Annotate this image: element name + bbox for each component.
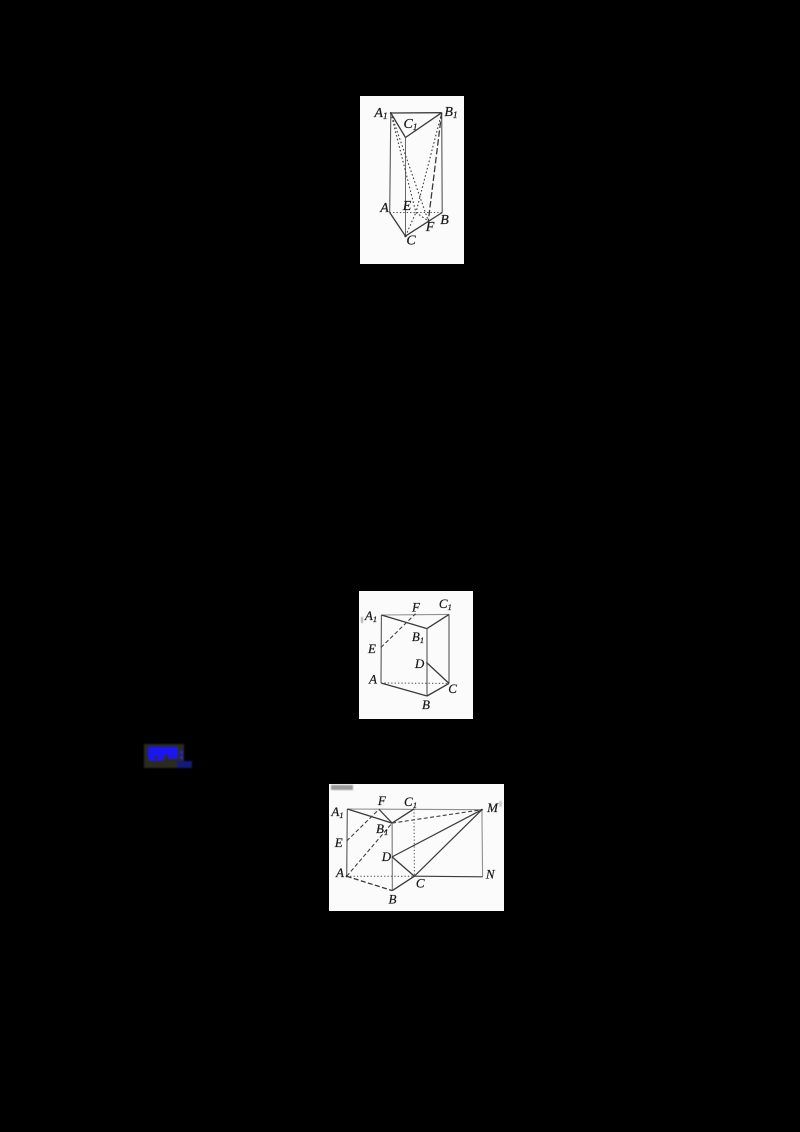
answer badge blue glyphs bbox=[148, 747, 178, 759]
segment E-F bbox=[347, 809, 379, 841]
svg-text:B1: B1 bbox=[376, 821, 388, 837]
edge A-C hidden bbox=[381, 682, 449, 684]
svg-text:C: C bbox=[406, 234, 416, 249]
svg-text:C: C bbox=[448, 681, 457, 696]
svg-text:E: E bbox=[367, 641, 376, 656]
edge C-N bbox=[414, 875, 482, 878]
svg-text:B1: B1 bbox=[444, 105, 457, 121]
answer badge background bbox=[144, 744, 184, 768]
segment B1-F bbox=[379, 809, 392, 823]
svg-text:A: A bbox=[368, 671, 377, 686]
answer badge colon dot top bbox=[180, 751, 183, 754]
svg-text:A1: A1 bbox=[364, 608, 377, 624]
answer badge navy block bbox=[177, 761, 192, 768]
edge B1-B bbox=[391, 823, 393, 891]
edge A1-B1 bbox=[381, 615, 427, 629]
edge A1-A bbox=[380, 615, 382, 683]
segment A-B1 bbox=[347, 823, 392, 876]
segment E-F bbox=[381, 614, 416, 648]
svg-text:M: M bbox=[486, 800, 499, 815]
vertex dot A bbox=[346, 875, 348, 877]
svg-text:A1: A1 bbox=[330, 804, 343, 820]
svg-text:B: B bbox=[440, 213, 449, 228]
svg-text:A: A bbox=[335, 865, 344, 880]
svg-text:D: D bbox=[414, 656, 425, 671]
segment B1-F bbox=[428, 113, 441, 221]
answer badge colon dot bottom bbox=[180, 756, 183, 759]
svg-text:E: E bbox=[334, 835, 343, 850]
edge C-B bbox=[406, 213, 443, 237]
edge C1-C bbox=[405, 138, 407, 237]
edge C1-C hidden bbox=[413, 809, 415, 876]
edge B1-C1 bbox=[427, 614, 449, 628]
svg-text:F: F bbox=[411, 599, 421, 614]
segment C-E bbox=[406, 213, 416, 237]
answer badge glyph notch 1 bbox=[155, 756, 157, 759]
svg-text:A1: A1 bbox=[373, 106, 387, 122]
vertex dot A1 bbox=[390, 112, 392, 114]
answer badge glyph notch 2 bbox=[165, 755, 168, 759]
edge A1-C1 bbox=[381, 613, 449, 616]
segment C-M bbox=[414, 810, 482, 877]
answer badge group bbox=[134, 734, 204, 778]
edge B1-B bbox=[426, 629, 428, 696]
segment D-C bbox=[392, 857, 414, 876]
edge C1-C bbox=[448, 614, 450, 683]
svg-text:C: C bbox=[416, 876, 425, 891]
figure panel 3 bbox=[329, 784, 504, 911]
segment A1-E bbox=[391, 113, 416, 213]
figure panel 1 bbox=[360, 96, 464, 264]
vertex dot C bbox=[404, 235, 406, 237]
svg-text:C1: C1 bbox=[439, 596, 452, 612]
edge A-C hidden bbox=[347, 875, 415, 877]
edge A1-B1 bbox=[391, 112, 442, 114]
segment A1-F bbox=[391, 113, 429, 221]
svg-text:A: A bbox=[379, 201, 389, 216]
segment D-C bbox=[426, 662, 449, 683]
edge A1-A bbox=[346, 809, 349, 876]
edge A-C bbox=[390, 213, 406, 237]
edge B-C bbox=[427, 683, 449, 696]
edge A1-A bbox=[390, 113, 391, 213]
edge A1-C1 bbox=[391, 113, 406, 138]
edge A-B bbox=[381, 683, 427, 696]
svg-text:B: B bbox=[422, 697, 430, 712]
edge B1-C1 bbox=[392, 809, 414, 823]
edge B1-C1 bbox=[406, 113, 442, 138]
edge A1-B1 bbox=[347, 809, 392, 823]
gray tick inside figure 2 left edge bbox=[361, 617, 363, 623]
segment B1-E bbox=[416, 113, 442, 213]
svg-text:C1: C1 bbox=[404, 794, 417, 810]
svg-text:E: E bbox=[402, 199, 412, 214]
gray smudge at top-left inside figure 3 bbox=[331, 785, 353, 790]
svg-text:N: N bbox=[485, 866, 496, 881]
answer badge glyph descender bbox=[149, 758, 163, 761]
edge M-N bbox=[481, 810, 484, 877]
edge B1-B bbox=[441, 113, 444, 213]
svg-text:F: F bbox=[377, 793, 387, 808]
svg-text:F: F bbox=[425, 220, 435, 235]
edge A-B hidden bbox=[390, 212, 443, 214]
edge B-C bbox=[392, 876, 414, 890]
svg-text:D: D bbox=[381, 849, 392, 864]
edge A-B bbox=[347, 876, 393, 890]
svg-text:B: B bbox=[389, 891, 397, 906]
segment E-F bbox=[416, 213, 428, 221]
figure panel 2 bbox=[359, 591, 473, 719]
vertex dot M bbox=[481, 809, 483, 811]
gray square right of M in figure 3 bbox=[499, 801, 502, 807]
svg-text:C1: C1 bbox=[403, 117, 417, 133]
svg-text:B1: B1 bbox=[412, 629, 424, 645]
edge A1-M bbox=[347, 808, 482, 811]
segment D-M bbox=[392, 810, 482, 857]
segment B1-M bbox=[392, 810, 482, 823]
